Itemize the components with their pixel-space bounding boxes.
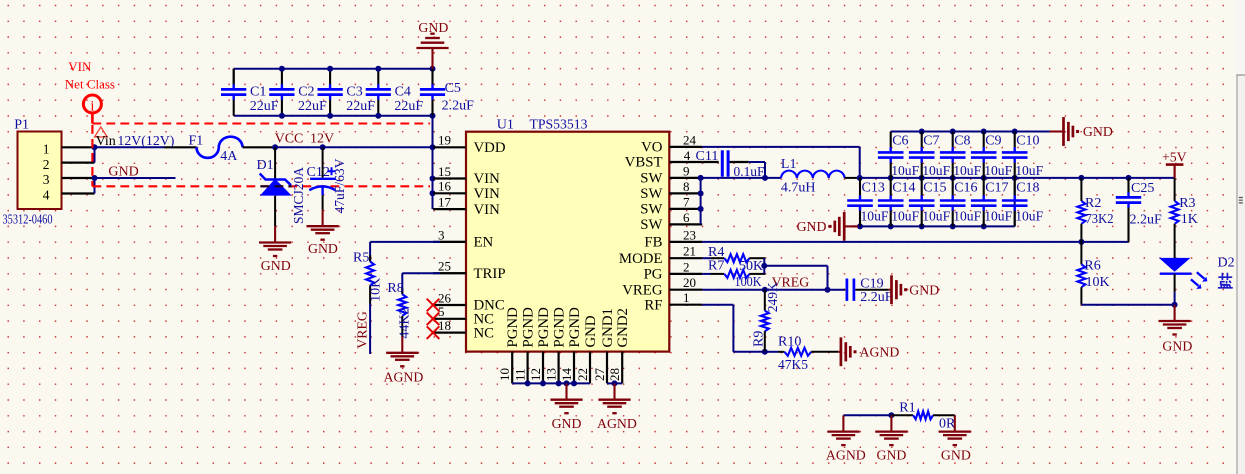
- svg-text:10uF: 10uF: [1015, 209, 1043, 224]
- svg-text:VIN: VIN: [474, 202, 501, 218]
- svg-text:L1: L1: [781, 157, 797, 172]
- svg-text:C6: C6: [892, 134, 908, 149]
- svg-text:i: i: [90, 98, 94, 114]
- svg-text:TRIP: TRIP: [474, 266, 506, 282]
- svg-text:R10: R10: [778, 334, 801, 349]
- svg-text:PGND: PGND: [505, 307, 521, 348]
- svg-text:F1: F1: [189, 134, 204, 149]
- svg-text:P1: P1: [14, 118, 29, 133]
- svg-text:U1: U1: [497, 118, 514, 133]
- svg-text:GND: GND: [583, 315, 599, 347]
- svg-text:1K: 1K: [1181, 212, 1198, 227]
- svg-text:10uF: 10uF: [861, 209, 889, 224]
- svg-text:SW: SW: [640, 186, 662, 202]
- svg-text:C15: C15: [923, 181, 946, 196]
- svg-text:0R: 0R: [939, 417, 956, 432]
- svg-text:10: 10: [497, 368, 512, 381]
- svg-text:PGND: PGND: [521, 307, 537, 348]
- svg-text:8: 8: [683, 179, 690, 194]
- svg-text:VIN: VIN: [68, 59, 92, 74]
- svg-text:C10: C10: [1016, 134, 1039, 149]
- svg-text:R9: R9: [752, 331, 767, 347]
- svg-text:GND1: GND1: [600, 308, 616, 347]
- svg-text:C9: C9: [985, 134, 1001, 149]
- svg-text:10uF: 10uF: [1015, 164, 1043, 179]
- svg-text:R5: R5: [353, 251, 369, 266]
- svg-text:C1: C1: [250, 84, 266, 99]
- svg-text:R2: R2: [1085, 196, 1101, 211]
- svg-text:SW: SW: [640, 217, 662, 233]
- svg-text:2: 2: [683, 259, 690, 274]
- svg-text:MODE: MODE: [619, 251, 663, 267]
- svg-text:C8: C8: [954, 134, 970, 149]
- svg-text:GND: GND: [909, 282, 939, 297]
- svg-text:47K5: 47K5: [778, 358, 808, 373]
- svg-text:44K2: 44K2: [398, 307, 413, 338]
- svg-text:VIN: VIN: [474, 186, 501, 202]
- svg-text:VBST: VBST: [625, 155, 663, 171]
- svg-text:C12: C12: [307, 165, 330, 180]
- svg-text:C16: C16: [954, 181, 977, 196]
- svg-text:AGND: AGND: [384, 369, 424, 384]
- svg-text:100K: 100K: [735, 275, 762, 290]
- svg-text:12: 12: [528, 368, 543, 381]
- svg-text:22uF: 22uF: [346, 99, 375, 114]
- svg-text:4A: 4A: [220, 149, 238, 164]
- svg-text:AGND: AGND: [826, 448, 866, 463]
- svg-text:3: 3: [43, 172, 50, 187]
- svg-text:10uF: 10uF: [922, 164, 950, 179]
- svg-text:26: 26: [438, 290, 452, 305]
- svg-text:2.2uF: 2.2uF: [860, 290, 893, 305]
- svg-text:R6: R6: [1084, 258, 1100, 273]
- svg-text:AGND: AGND: [860, 345, 900, 360]
- svg-text:23: 23: [683, 227, 696, 242]
- svg-text:10uF: 10uF: [953, 164, 981, 179]
- svg-text:C5: C5: [445, 81, 461, 96]
- svg-text:Net Class: Net Class: [65, 77, 115, 92]
- svg-text:15: 15: [438, 164, 451, 179]
- svg-text:19: 19: [438, 133, 451, 148]
- svg-text:C14: C14: [892, 181, 915, 196]
- svg-text:17: 17: [438, 195, 452, 210]
- svg-text:SW: SW: [640, 171, 662, 187]
- svg-text:EN: EN: [474, 235, 494, 251]
- svg-text:10uF: 10uF: [984, 164, 1012, 179]
- svg-text:VREG: VREG: [354, 311, 369, 349]
- svg-text:PG: PG: [644, 267, 663, 283]
- svg-text:AGND: AGND: [597, 416, 637, 431]
- svg-text:28: 28: [607, 368, 622, 381]
- svg-text:C7: C7: [923, 134, 939, 149]
- svg-text:FB: FB: [644, 235, 662, 251]
- svg-text:10uF: 10uF: [953, 209, 981, 224]
- svg-text:7: 7: [683, 194, 690, 209]
- svg-text:C3: C3: [346, 84, 362, 99]
- svg-text:GND: GND: [1162, 338, 1192, 353]
- svg-text:5: 5: [438, 304, 445, 319]
- svg-text:R1: R1: [899, 401, 915, 416]
- svg-text:22uF: 22uF: [394, 99, 423, 114]
- svg-text:10uF: 10uF: [922, 209, 950, 224]
- svg-text:GND: GND: [108, 165, 138, 180]
- svg-text:3: 3: [438, 227, 445, 242]
- svg-text:VCC: VCC: [275, 132, 304, 147]
- svg-text:C11: C11: [696, 149, 719, 164]
- svg-text:GND: GND: [418, 20, 448, 35]
- svg-text:1: 1: [43, 142, 50, 157]
- svg-text:R8: R8: [387, 281, 403, 296]
- svg-text:73K2: 73K2: [1086, 212, 1114, 227]
- svg-text:22: 22: [575, 368, 590, 381]
- svg-text:4.7uH: 4.7uH: [781, 180, 816, 195]
- svg-text:16: 16: [438, 179, 452, 194]
- svg-text:Vin: Vin: [96, 134, 116, 149]
- svg-text:10uF: 10uF: [984, 209, 1012, 224]
- svg-text:35312-0460: 35312-0460: [3, 212, 53, 227]
- svg-text:24: 24: [683, 132, 697, 147]
- svg-text:12V(12V): 12V(12V): [117, 134, 174, 149]
- svg-text:C18: C18: [1016, 181, 1039, 196]
- svg-text:10K: 10K: [1086, 275, 1110, 290]
- svg-text:GND: GND: [877, 448, 907, 463]
- svg-text:R7: R7: [708, 259, 724, 274]
- svg-text:C13: C13: [862, 181, 885, 196]
- svg-text:GND: GND: [797, 219, 827, 234]
- svg-text:RF: RF: [644, 297, 662, 313]
- svg-text:GND: GND: [261, 258, 291, 273]
- svg-text:PGND: PGND: [567, 307, 583, 348]
- svg-text:47uF/63V: 47uF/63V: [333, 159, 348, 214]
- svg-text:C2: C2: [298, 84, 314, 99]
- svg-text:VO: VO: [641, 140, 663, 156]
- svg-text:VDD: VDD: [474, 140, 506, 156]
- svg-text:10uF: 10uF: [891, 164, 919, 179]
- svg-text:+5V: +5V: [1162, 150, 1187, 165]
- svg-text:SMCJ20A: SMCJ20A: [292, 166, 307, 224]
- svg-text:GND: GND: [1083, 124, 1113, 139]
- svg-text:GND: GND: [941, 448, 971, 463]
- svg-text:2: 2: [43, 157, 50, 172]
- svg-text:C17: C17: [985, 181, 1008, 196]
- svg-text:14: 14: [559, 368, 574, 382]
- svg-text:TPS53513: TPS53513: [530, 118, 588, 133]
- svg-text:20: 20: [683, 275, 696, 290]
- svg-text:18: 18: [438, 318, 451, 333]
- svg-text:10uF: 10uF: [891, 209, 919, 224]
- svg-text:R3: R3: [1179, 196, 1195, 211]
- svg-text:22uF: 22uF: [250, 99, 279, 114]
- svg-text:4: 4: [43, 188, 50, 203]
- svg-text:VREG: VREG: [622, 282, 663, 298]
- svg-text:GND: GND: [308, 241, 338, 256]
- svg-text:PGND: PGND: [536, 307, 552, 348]
- svg-text:VIN: VIN: [474, 171, 501, 187]
- svg-text:NC: NC: [474, 325, 495, 341]
- svg-text:10K: 10K: [369, 278, 384, 302]
- svg-text:1: 1: [683, 290, 690, 305]
- svg-text:D1: D1: [257, 158, 274, 173]
- svg-text:6: 6: [683, 210, 690, 225]
- svg-text:C4: C4: [395, 84, 411, 99]
- svg-text:2.2uF: 2.2uF: [1130, 213, 1163, 228]
- svg-text:C25: C25: [1131, 181, 1154, 196]
- svg-text:2.2uF: 2.2uF: [442, 99, 475, 114]
- svg-text:21: 21: [683, 244, 696, 259]
- svg-text:GND2: GND2: [615, 308, 631, 347]
- svg-text:22uF: 22uF: [298, 99, 327, 114]
- svg-text:D2: D2: [1218, 256, 1235, 271]
- svg-text:13: 13: [543, 368, 558, 381]
- svg-text:249K: 249K: [766, 282, 781, 312]
- svg-text:27: 27: [592, 368, 607, 382]
- svg-text:SW: SW: [640, 202, 662, 218]
- svg-text:PGND: PGND: [552, 307, 568, 348]
- svg-text:9: 9: [683, 163, 690, 178]
- svg-text:4: 4: [684, 148, 691, 163]
- svg-text:25: 25: [438, 259, 451, 274]
- svg-text:11: 11: [512, 368, 527, 381]
- svg-text:GND: GND: [552, 416, 582, 431]
